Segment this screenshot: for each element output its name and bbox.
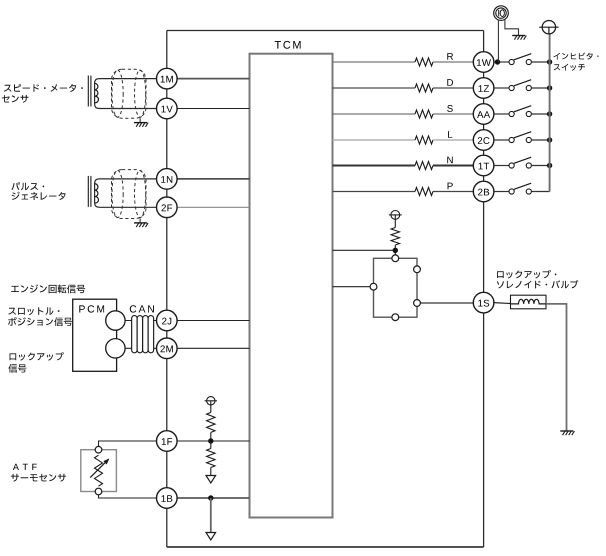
relay terminal left	[370, 283, 377, 290]
wire: resistor to pin 1Z	[433, 87, 473, 89]
junction dot at 1B	[208, 495, 213, 500]
wire: resistor to pin 2C	[433, 139, 473, 141]
power feed symbol above resistor R_a	[207, 397, 215, 405]
wire: TCM to resistor row N	[333, 165, 416, 167]
label lockup signal line1	[10, 352, 64, 361]
indicator lamp	[494, 6, 509, 21]
label N	[447, 157, 452, 164]
wire: switch R to inhibitor bus	[531, 61, 549, 63]
label ATF	[13, 464, 37, 470]
label lockup solenoid valve line2	[497, 280, 579, 289]
thermistor terminal circle bottom	[95, 488, 102, 495]
junction dot at 1F	[208, 438, 213, 443]
speed sensor coil winding	[95, 83, 99, 102]
label lockup solenoid valve line1	[497, 270, 556, 278]
relay terminal bottom	[392, 314, 399, 321]
wire: pin 1M to TCM	[177, 78, 249, 80]
switch contacts row R	[509, 59, 514, 64]
lockup solenoid valve box	[511, 295, 547, 309]
label CAN	[130, 305, 154, 312]
solenoid coil	[511, 299, 547, 304]
speed sensor leads to pins 1M/1V	[95, 79, 157, 109]
wire: pin 1V to TCM	[177, 108, 249, 110]
wire: TCM to resistor row S	[333, 113, 416, 115]
thermistor element	[95, 455, 103, 486]
wire: TCM to resistor row D	[333, 87, 416, 89]
resistor R_a (pull-up at 1F)	[210, 405, 212, 412]
switch contacts row P	[509, 189, 514, 194]
wire: switch S to inhibitor bus	[531, 113, 549, 115]
wire: connector box right edge (right pin bus)	[483, 31, 485, 548]
wire: switch P to inhibitor bus corner	[531, 191, 549, 193]
pin 1T	[473, 155, 494, 176]
wire: pin 1N to TCM	[177, 178, 249, 180]
pin 1S	[473, 292, 494, 313]
power feed symbol above resistor R_c	[391, 211, 400, 220]
wire: resistor to pin 2B	[433, 191, 473, 193]
resistor row L	[415, 136, 433, 144]
switch contacts row L	[509, 137, 514, 142]
pin 2B	[473, 181, 494, 202]
PCM module box	[73, 299, 117, 371]
wire: 1S to solenoid	[494, 303, 518, 304]
pin 2C	[473, 130, 494, 151]
ground (lamp)	[512, 35, 525, 37]
CAN twisted-pair coil	[132, 316, 138, 353]
label lockup signal line2	[8, 364, 26, 373]
wire: pin 2J to TCM	[177, 320, 249, 322]
pin 1N	[157, 169, 178, 190]
PCM terminal circle upper	[106, 311, 125, 330]
arrow terminal below R_b	[206, 476, 216, 483]
wire: connector box left edge (left pin bus)	[166, 31, 168, 548]
pin 2F	[157, 197, 178, 218]
label pulse generator line2	[12, 192, 66, 200]
wire: thermistor to 1F	[99, 441, 157, 446]
junction dot at 1W (lamp tap)	[495, 59, 500, 64]
arrow terminal below 1B	[206, 533, 216, 540]
junction dot at relay top	[393, 248, 398, 253]
label thermo sensor	[11, 474, 66, 482]
wire: TCM to relay top	[333, 249, 396, 251]
label inhibitor switch line1	[554, 53, 599, 60]
PCM terminal circle lower	[106, 339, 125, 358]
ground (pulse generator shield)	[139, 219, 141, 223]
label throttle position signal line2	[8, 317, 72, 326]
wire: pin 2B to switch P	[494, 191, 509, 193]
resistor row P	[415, 188, 433, 196]
wire: pin 1Z to switch D	[494, 87, 509, 89]
TCM control module box	[250, 54, 333, 518]
wire: TCM to resistor row L	[333, 139, 416, 141]
wire: switch D to inhibitor bus	[531, 87, 549, 89]
pin AA	[473, 104, 494, 125]
label engine speed signal	[11, 285, 85, 294]
wire: TCM to relay left	[333, 286, 371, 288]
wire: resistor to pin 1W	[433, 61, 473, 63]
relay terminal right-lower	[414, 300, 421, 307]
label P	[448, 183, 453, 190]
label S	[447, 105, 453, 112]
wire: pin AA to switch S	[494, 113, 509, 115]
wire: switch N to inhibitor bus	[531, 165, 549, 167]
label D	[447, 79, 453, 86]
shield (dashed) around speed sensor wires	[112, 69, 147, 118]
resistor R_c	[394, 219, 396, 227]
label PCM	[79, 305, 104, 312]
label R	[447, 53, 453, 60]
relay unit box	[374, 258, 418, 317]
wire: pin 1T to switch N	[494, 165, 509, 167]
wire: inhibitor bus vertical	[549, 34, 551, 192]
wire: 1B junction down	[210, 498, 212, 533]
wire: PCM to 2J	[115, 320, 156, 322]
label pulse generator line1	[11, 182, 44, 190]
wire: resistor to pin 1T	[433, 165, 473, 167]
power feed symbol (battery) top right	[542, 21, 555, 34]
switch contacts row N	[509, 163, 514, 168]
wire: connector box top edge	[167, 30, 484, 32]
resistor row N	[415, 162, 433, 170]
pin 2M	[157, 338, 178, 359]
junction dot bus row N	[547, 163, 552, 168]
label TCM	[275, 41, 301, 49]
wire: pin 2M to TCM	[177, 347, 249, 349]
label speed-meter sensor line1	[4, 84, 83, 92]
wire: resistor to pin AA	[433, 113, 473, 115]
pulse generator leads to pins 1N/2F	[95, 179, 157, 207]
ground (solenoid)	[560, 430, 573, 432]
label throttle position signal line1	[8, 307, 59, 315]
wire: switch L to inhibitor bus	[531, 139, 549, 141]
shield (dashed) around pulse generator wires	[112, 170, 147, 219]
junction dot bus row L	[547, 137, 552, 142]
pulse generator coil winding	[95, 184, 99, 203]
wire: PCM to 2M	[115, 347, 156, 349]
junction dot bus row D	[547, 85, 552, 90]
resistor R_b (pull-down at 1F)	[210, 441, 212, 449]
wire: pin 2F to TCM	[177, 206, 249, 208]
pin 1W	[473, 52, 494, 73]
label speed-meter sensor line2	[2, 95, 29, 103]
wire: pin 1F to TCM	[177, 440, 249, 442]
wire: lamp to ground	[505, 20, 519, 36]
wire: TCM to resistor row R	[333, 61, 416, 63]
ground (speed sensor shield)	[139, 118, 141, 122]
pin 1F	[157, 431, 178, 452]
wire: lamp to 1W junction	[497, 20, 499, 62]
junction dot bus row S	[547, 111, 552, 116]
wire: connector box bottom edge	[167, 546, 484, 548]
wire: relay to 1S	[420, 302, 473, 304]
resistor row S	[415, 110, 433, 118]
resistor row D	[415, 84, 433, 92]
junction dot bus row R	[547, 59, 552, 64]
wire: pin 1W to switch R	[494, 61, 509, 63]
label inhibitor switch line2	[554, 64, 585, 71]
wire: TCM to resistor row P	[333, 191, 416, 193]
switch contacts row S	[509, 111, 514, 116]
wire: thermistor to 1B	[99, 495, 157, 498]
label L	[448, 131, 452, 138]
pin 2J	[157, 310, 178, 331]
thermistor terminal circle top	[95, 446, 102, 453]
switch contacts row D	[509, 85, 514, 90]
ATF thermo sensor box	[81, 450, 117, 492]
relay terminal top	[392, 255, 399, 262]
wire: pin 1B to TCM	[177, 497, 249, 499]
pin 1B	[157, 488, 178, 509]
speed sensor core (double line)	[87, 76, 89, 107]
pin 1M	[157, 68, 178, 89]
pin 1V	[157, 98, 178, 119]
wire: solenoid to ground	[546, 304, 567, 431]
relay terminal right-upper	[414, 266, 421, 273]
resistor row R	[415, 58, 433, 66]
pin 1Z	[473, 78, 494, 99]
wire: pin 2C to switch L	[494, 139, 509, 141]
pulse generator core (double line)	[87, 176, 89, 207]
